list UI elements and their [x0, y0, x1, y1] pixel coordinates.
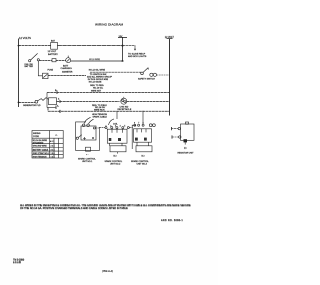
junction W2 x bus2: [122, 60, 124, 62]
fuse F1: [43, 73, 49, 78]
lamp DS1 inner b: [124, 101, 126, 103]
magneto A1 inner mark plus: [83, 137, 86, 140]
fuse F1 element: [43, 74, 47, 77]
svg-text:2-14-45: 2-14-45: [13, 263, 22, 265]
generator G1 vertical bus: [46, 93, 48, 108]
lamp DS1 inner a: [122, 100, 124, 102]
svg-text:UNIT NO.1: UNIT NO.1: [82, 161, 93, 163]
svg-text:GROUND WIRE: GROUND WIRE: [33, 146, 48, 148]
resistor R1 tick a: [171, 127, 173, 130]
switch S2 blade: [143, 68, 148, 73]
svg-text:HIGH TENSION: HIGH TENSION: [33, 156, 47, 158]
coil T1 inner mark b: [118, 138, 121, 141]
svg-text:TO IGNITION SW.: TO IGNITION SW.: [90, 74, 107, 76]
resistor R1 wire a: [172, 128, 179, 130]
coil T1 terminal 3: [116, 127, 118, 129]
svg-text:1 4 5: 1 4 5: [51, 156, 55, 158]
svg-text:RECEPTACLE: RECEPTACLE: [118, 108, 132, 111]
magneto A1 lead arc b: [89, 119, 94, 124]
resistor R1 bottom tick: [184, 142, 186, 144]
battery BT1: [51, 42, 58, 49]
junction W4 at left bus: [18, 102, 20, 104]
ammeter M1 stem: [67, 56, 69, 58]
terminal tick W3: [56, 91, 58, 94]
svg-text:-o-: -o-: [55, 135, 58, 137]
wire W3 generator top: [47, 92, 170, 94]
resistor R1 terminal b: [179, 136, 181, 138]
lamp DS1: [121, 98, 127, 104]
wire to safety switch: [90, 71, 141, 73]
switch S1 blade: [31, 53, 38, 60]
table divider h4: [32, 150, 63, 152]
magneto A1 inner box: [81, 126, 96, 140]
svg-text:AND NO. 3090-1: AND NO. 3090-1: [161, 220, 183, 223]
svg-text:WIRE RUN: WIRE RUN: [94, 110, 105, 112]
resistor R1 top bump: [186, 122, 189, 124]
spark unit A2 inner tick c: [145, 129, 147, 133]
junction left bus to battery wire: [18, 45, 20, 47]
switch S1 ignition left terminal: [29, 60, 31, 62]
svg-text:(762-A-2): (762-A-2): [102, 269, 113, 273]
svg-text:RESISTOR UNIT: RESISTOR UNIT: [178, 152, 195, 154]
svg-text:CHARGING: CHARGING: [61, 67, 73, 70]
spark unit A2 bracket a: [136, 142, 138, 146]
wire branch to receptacle: [123, 46, 136, 49]
svg-text:GND STRAP NO.8: GND STRAP NO.8: [33, 152, 49, 155]
svg-text:SPARK CONTROL: SPARK CONTROL: [131, 160, 149, 163]
magneto A1 right terminal: [93, 127, 95, 129]
svg-text:OF THE NO.14 GA. POSITIVE CHAR: OF THE NO.14 GA. POSITIVE CHARGED TERMIN…: [20, 208, 128, 211]
svg-text:WIRE SET: WIRE SET: [91, 90, 102, 92]
svg-text:UNIT NO.2: UNIT NO.2: [110, 163, 121, 165]
wire W4 right segment: [57, 101, 120, 103]
wire W4 from left bus: [19, 102, 36, 104]
svg-text:4 1 6: 4 1 6: [51, 149, 55, 151]
resistor R1 tick b: [171, 135, 173, 138]
arrow to receptacle: [134, 49, 136, 51]
spark unit A2 box: [134, 129, 152, 142]
spark unit A2 connection dash: [129, 127, 133, 129]
wire left bus vertical: [18, 39, 20, 108]
spark unit A2 inner mark a: [135, 138, 138, 141]
wire S2 to right bus: [157, 74, 170, 76]
coil T1 bracket b: [121, 143, 123, 146]
svg-text:NO.10 GA.: NO.10 GA.: [93, 87, 104, 90]
svg-text:SPARK CONTROL: SPARK CONTROL: [78, 158, 96, 161]
generator G1 bottom stub: [47, 107, 56, 109]
svg-text:GENERATOR FLD: GENERATOR FLD: [23, 104, 41, 107]
coil T1 box: [107, 129, 127, 143]
switch S2 pivot: [141, 72, 144, 75]
svg-text:UNIT NO.3: UNIT NO.3: [137, 163, 148, 165]
magneto A1 sub box: [86, 147, 91, 151]
coil T1 connection dash left: [99, 127, 105, 129]
wire W2 ammeter line: [39, 60, 52, 62]
resistor R1 bottom blob: [184, 139, 188, 142]
spark unit A2 stub from W5: [142, 111, 144, 124]
generator G1 flex lead: [38, 98, 49, 101]
coil T1 terminal 4: [122, 127, 124, 129]
wire W1 battery line right segment: [57, 45, 122, 47]
svg-text:B+: B+: [55, 90, 58, 92]
svg-text:2 3 4: 2 3 4: [51, 146, 55, 148]
wire fuse line: [48, 75, 86, 77]
svg-text:CODE: CODE: [33, 136, 39, 138]
connector on W2: [52, 59, 56, 62]
table divider h3: [32, 147, 63, 149]
coil T1 bracket a: [108, 143, 110, 146]
coil T1 sub tick: [116, 152, 118, 154]
spark unit A2 terminal 3: [142, 124, 144, 126]
spark unit A2 sub box: [136, 146, 152, 152]
switch S2 contact b: [153, 73, 156, 76]
spark unit A2 terminal 4: [149, 124, 152, 127]
magneto A1 right dash: [95, 127, 99, 129]
svg-text:BAT TER: BAT TER: [25, 65, 34, 68]
svg-text:TO SLAVE RECP: TO SLAVE RECP: [128, 52, 146, 55]
junction tick W5: [59, 110, 61, 113]
spark unit A2 terminal 1: [134, 124, 136, 126]
svg-text:NO.14 GAGE: NO.14 GAGE: [89, 80, 102, 83]
resistor R1 box: [181, 124, 195, 140]
magneto A1 inner dot: [92, 137, 94, 139]
junction W1 x bus2: [122, 45, 124, 47]
table divider h2: [32, 143, 63, 145]
coil T1 terminal 5: [127, 127, 129, 129]
wire W5 ground line: [48, 108, 170, 112]
wire code table outer: [32, 131, 63, 159]
spark unit A2 inner tick b: [141, 129, 143, 133]
svg-text:4 6 1: 4 6 1: [50, 141, 54, 143]
spark unit A2 left bracket: [132, 125, 136, 149]
svg-text:+ -: + -: [86, 154, 89, 156]
svg-text:FUSE: FUSE: [48, 70, 54, 72]
switch S1 right terminal: [37, 59, 39, 61]
switch S2 contact a: [150, 73, 153, 76]
magneto A1 breaker blade: [78, 135, 82, 138]
svg-text:BATTERY: BATTERY: [48, 53, 58, 56]
svg-text:WIRING DIAGRAM: WIRING DIAGRAM: [95, 23, 124, 27]
spark unit A2 inner mark b: [144, 138, 147, 141]
table divider h1: [32, 137, 63, 139]
table divider h5: [32, 153, 63, 155]
spark unit A2 bracket b: [148, 142, 150, 146]
spark unit A2 terminal 5: [153, 124, 156, 127]
coil T1 inner mark a: [109, 138, 112, 141]
svg-text:B 2: B 2: [142, 156, 146, 158]
table divider v3: [58, 138, 60, 158]
ammeter M1 needle: [67, 59, 70, 61]
regulator VR1: [49, 98, 57, 105]
terminal tick W4: [59, 100, 61, 103]
coil T1 inner tick c: [122, 129, 124, 133]
svg-text:BATT: BATT: [63, 64, 69, 67]
switch S1 down wire: [38, 61, 42, 76]
lamp DS1 top tick: [123, 97, 125, 98]
coil T1 top stub: [116, 111, 118, 119]
table divider v1: [49, 131, 51, 159]
wire W1 battery line left segment: [19, 45, 51, 47]
svg-text:SPARK CONTROL: SPARK CONTROL: [105, 160, 123, 163]
magneto A1 cap circle b: [87, 124, 90, 127]
generator G1 terminal circle: [35, 100, 38, 103]
wire right bus vertical: [169, 39, 171, 116]
svg-text:(o): (o): [184, 148, 187, 150]
coil T1 terminal 1: [105, 127, 107, 129]
spark unit A2 terminal 2: [138, 124, 140, 126]
magneto A1 left terminal: [76, 137, 78, 139]
resistor R1 wire b: [172, 136, 179, 138]
magneto A1 lead arc a: [84, 117, 91, 124]
svg-text:B 2: B 2: [114, 156, 118, 158]
resistor R1 terminal a: [178, 127, 180, 129]
coil T1 inner tick a: [111, 129, 113, 133]
ammeter M1: [66, 58, 71, 63]
svg-text:A-: A-: [57, 105, 59, 108]
magneto A1 outer box: [76, 122, 100, 150]
table divider v2: [53, 138, 55, 158]
wire W2 right segment: [71, 60, 123, 62]
coil T1 lead arc: [109, 119, 115, 125]
spark unit A2 inner tick a: [136, 129, 138, 133]
wire bus2 vertical: [122, 37, 124, 61]
svg-text:NO.14 GA. WIRE: NO.14 GA. WIRE: [89, 69, 106, 72]
generator G1 stub tick: [55, 106, 57, 110]
svg-text:SPARK CABLE: SPARK CABLE: [93, 115, 108, 118]
svg-text:SAFETY SWITCH: SAFETY SWITCH: [138, 77, 155, 80]
coil T1 inner tick b: [116, 129, 118, 133]
svg-text:AND BOX LIGHTS: AND BOX LIGHTS: [128, 55, 147, 58]
svg-text:AMMETER: AMMETER: [62, 70, 73, 73]
svg-text:WIRING: WIRING: [33, 133, 41, 135]
magneto A1 cap circle a: [82, 124, 85, 127]
svg-text:STRANDED: STRANDED: [33, 141, 44, 144]
svg-text:6 7 8: 6 7 8: [134, 122, 145, 124]
wire W2 to ammeter: [56, 60, 66, 62]
wire W4 to right bus: [127, 101, 170, 103]
svg-text:1 8 4: 1 8 4: [51, 153, 55, 155]
coil T1 sub box: [110, 146, 126, 152]
svg-text:12 VOLTS: 12 VOLTS: [19, 36, 31, 40]
coil T1 terminal 2: [111, 127, 113, 129]
svg-text:BATTERY CABLE: BATTERY CABLE: [33, 148, 49, 151]
node bus2 top label: [118, 36, 127, 38]
